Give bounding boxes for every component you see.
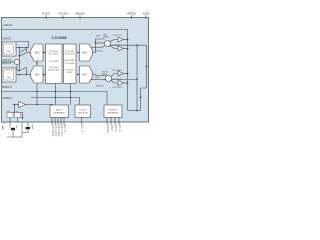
svg-text:DIGITAL: DIGITAL (49, 50, 59, 53)
svg-text:0.5x: 0.5x (7, 111, 10, 113)
svg-text:ROUT1VOL: ROUT1VOL (113, 70, 123, 72)
svg-text:RINPUT2: RINPUT2 (2, 87, 13, 89)
svg-text:CSB: CSB (110, 125, 113, 131)
svg-text:ADC: ADC (35, 74, 40, 77)
svg-text:INTERFACE: INTERFACE (54, 111, 66, 114)
svg-text:DIGITAL: DIGITAL (65, 50, 75, 53)
svg-text:ADCLRC: ADCLRC (54, 125, 57, 137)
svg-text:LOUT1VOL: LOUT1VOL (113, 35, 122, 37)
svg-text:FILTERS: FILTERS (49, 53, 59, 55)
svg-text:CIRCUITRY: CIRCUITRY (77, 112, 89, 114)
svg-text:DACDAT: DACDAT (57, 125, 60, 137)
svg-text:ADC: ADC (35, 52, 40, 55)
svg-text:FILTERS: FILTERS (65, 53, 75, 55)
svg-text:INTERFACE: INTERFACE (107, 111, 119, 114)
svg-text:DCVDD: DCVDD (58, 12, 67, 16)
svg-text:LINPUT1: LINPUT1 (3, 25, 13, 27)
svg-text:10u: 10u (15, 125, 17, 129)
svg-text:RINPUT1: RINPUT1 (2, 63, 13, 65)
svg-text:MODE: MODE (106, 125, 109, 134)
svg-text:SCLK: SCLK (118, 125, 121, 133)
svg-text:HPVDD: HPVDD (127, 12, 136, 16)
svg-text:CLOCK: CLOCK (79, 109, 87, 111)
svg-text:MICBIAS: MICBIAS (3, 97, 13, 100)
svg-text:VMID: VMID (1, 125, 3, 131)
svg-text:+1: +1 (7, 73, 9, 75)
svg-text:ROUT2VOL: ROUT2VOL (113, 79, 123, 81)
svg-text:0.5x: 0.5x (15, 111, 18, 113)
svg-text:CONTROL: CONTROL (108, 109, 119, 111)
svg-text:DAC: DAC (82, 52, 87, 55)
svg-text:DVDD: DVDD (42, 12, 49, 16)
svg-text:DIGITAL: DIGITAL (65, 68, 75, 71)
svg-text:DACLRC: DACLRC (60, 125, 63, 137)
svg-text:MONO MIX: MONO MIX (48, 70, 60, 72)
svg-text:RMIXVOL: RMIXVOL (95, 50, 103, 52)
svg-text:DBVDD: DBVDD (75, 12, 84, 16)
svg-text:RMIXVOL: RMIXVOL (96, 85, 104, 87)
svg-text:DIGITAL: DIGITAL (49, 66, 59, 69)
svg-text:AVDD: AVDD (142, 12, 149, 16)
svg-text:MCLK: MCLK (81, 125, 84, 133)
svg-text:ADCDAT: ADCDAT (51, 125, 54, 137)
svg-text:LOUT2VOL: LOUT2VOL (113, 45, 122, 47)
svg-text:MIXER: MIXER (103, 37, 109, 39)
svg-text:DAC: DAC (82, 74, 87, 77)
svg-text:AUDIO: AUDIO (56, 108, 63, 111)
svg-text:LINPUT2: LINPUT2 (2, 39, 12, 41)
svg-text:ROUT2VOL: ROUT2VOL (113, 87, 123, 89)
svg-text:VOLUME: VOLUME (65, 63, 75, 65)
svg-text:MUX: MUX (67, 72, 73, 74)
svg-text:CJC8988: CJC8988 (51, 36, 66, 40)
svg-text:RMIX: RMIX (95, 77, 100, 79)
svg-text:VREF: VREF (31, 124, 33, 130)
svg-text:MIXER: MIXER (102, 74, 108, 76)
svg-text:VOLUME: VOLUME (49, 61, 59, 63)
svg-text:BCLK: BCLK (63, 125, 66, 133)
svg-text:SDIN: SDIN (114, 125, 117, 132)
svg-text:+1: +1 (7, 47, 9, 49)
